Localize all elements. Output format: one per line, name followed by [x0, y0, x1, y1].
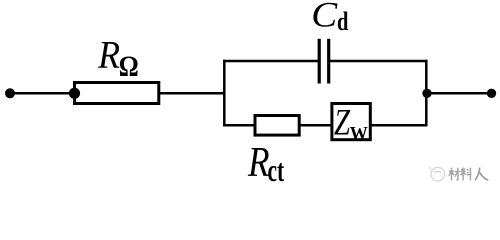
- wire (R_Omega to parallel block): [160, 92, 226, 95]
- resistor R_ct: [255, 116, 299, 136]
- element Z_w (Warburg) box: [332, 104, 370, 140]
- svg-text:ct: ct: [268, 153, 285, 188]
- svg-text:Ω: Ω: [119, 49, 139, 83]
- watermark text: 人: [475, 168, 488, 181]
- label C_d: [311, 0, 348, 37]
- svg-text:R: R: [97, 34, 120, 77]
- wire (right vertical of parallel block): [425, 60, 428, 127]
- watermark text: 材: [449, 168, 460, 181]
- wire (left terminal to R_Omega): [10, 92, 75, 95]
- resistor R_Omega: [75, 83, 159, 104]
- node (junction on right vertical): [422, 89, 431, 98]
- node (junction at R_Omega left): [69, 88, 80, 99]
- left terminal node: [5, 88, 15, 98]
- svg-text:C: C: [311, 0, 338, 35]
- label Z_w: [334, 102, 368, 145]
- svg-text:W: W: [350, 123, 369, 145]
- wire (R_ct to Z_w): [300, 124, 332, 127]
- wire (top branch, left of C_d): [223, 60, 319, 63]
- wire (left vertical of parallel block): [223, 60, 226, 127]
- right terminal node: [487, 89, 496, 98]
- wire (Z_w to right vertical): [372, 124, 428, 127]
- watermark text: 料: [461, 168, 472, 181]
- wire (bottom branch, left segment): [223, 124, 255, 127]
- wire (top branch, right of C_d): [329, 60, 428, 63]
- wire (junction to right terminal): [427, 92, 492, 95]
- label R_Omega: [97, 34, 139, 83]
- svg-text:Z: Z: [334, 102, 351, 143]
- capacitor C_d: [319, 39, 329, 84]
- label R_ct: [247, 139, 284, 188]
- svg-text:d: d: [337, 8, 348, 37]
- watermark logo (circle emblem): [429, 167, 445, 182]
- svg-text:R: R: [247, 139, 270, 186]
